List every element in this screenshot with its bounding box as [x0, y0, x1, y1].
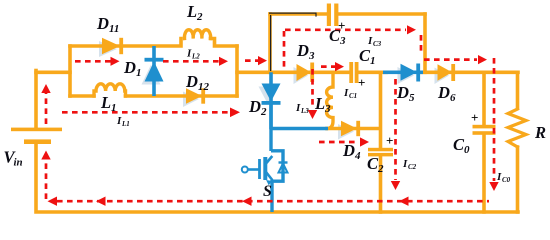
svg-text:4: 4	[354, 150, 361, 162]
diode D11	[102, 38, 120, 54]
gate circle	[242, 167, 248, 173]
svg-text:+: +	[338, 18, 345, 33]
arrowhead bottom return left mid2	[242, 197, 252, 206]
wire: loop bottom left segment	[70, 94, 94, 98]
wire: loop bottom right segment	[126, 94, 238, 98]
svg-text:S: S	[263, 183, 272, 200]
arrowhead post-D3	[335, 62, 344, 71]
svg-text:C0: C0	[502, 176, 511, 184]
wire: I loop row seg3	[245, 59, 259, 62]
wire: output rail D6 to R corner	[422, 71, 518, 75]
arrowhead I_C0 down	[489, 182, 498, 191]
wire: right red jog vertical	[420, 35, 423, 54]
arrowhead right end seg1	[111, 57, 120, 66]
wire: C0 riser top	[482, 72, 486, 125]
svg-text:2: 2	[196, 11, 203, 23]
shadow of diode D12	[183, 92, 199, 108]
svg-text:2: 2	[260, 106, 267, 118]
shadow of diode D3	[294, 67, 309, 84]
arrowhead D4 current arrow	[360, 137, 369, 146]
svg-text:C1: C1	[349, 92, 357, 100]
wire: C3 riser	[268, 14, 272, 72]
svg-text:6: 6	[450, 92, 456, 104]
shadow of diode D1	[142, 65, 161, 85]
wire: C2 riser bottom	[379, 156, 383, 212]
svg-text:+: +	[358, 75, 365, 90]
arrowhead bottom return left mid3	[399, 197, 409, 206]
wire: I_C2 vertical	[394, 79, 397, 180]
IGBT anti-parallel diode bar	[279, 161, 288, 163]
capacitor C2 plates	[368, 148, 393, 152]
wire: R top lead	[516, 72, 520, 108]
wire: battery bottom lead and bottom rail	[36, 144, 518, 213]
wire: I_C0 vertical	[493, 58, 496, 181]
svg-text:2: 2	[377, 163, 384, 175]
arrowhead battery upper up	[41, 84, 50, 93]
wire: I_C3 left vertical	[283, 31, 286, 70]
shadow of diode D6	[435, 68, 450, 85]
wire: C1 right to C2 node	[358, 71, 387, 75]
wire: loop top right of L2	[211, 39, 238, 47]
wire: collector down	[269, 101, 272, 151]
svg-text:D: D	[342, 141, 355, 160]
collector diagonal	[266, 156, 272, 164]
wire: C2 riser top	[379, 72, 383, 148]
svg-text:+: +	[386, 133, 393, 148]
wire: loop left edge	[68, 46, 72, 96]
svg-text:R: R	[534, 123, 546, 142]
shadow of diode D2	[259, 87, 278, 105]
inductor L1	[94, 84, 126, 96]
wire: D4 branch	[327, 127, 380, 131]
svg-text:1: 1	[136, 67, 142, 79]
capacitor C3 plates	[327, 4, 331, 27]
svg-text:11: 11	[109, 23, 119, 35]
red dashed current arrows	[46, 30, 494, 201]
emitter arrowhead	[266, 180, 272, 185]
gate bar	[258, 159, 261, 179]
arrowhead I_L3 down	[308, 110, 317, 119]
wire: I_L3 arrow	[311, 69, 314, 109]
svg-text:L3: L3	[300, 107, 309, 115]
inductor L3	[327, 72, 333, 128]
svg-text:in: in	[14, 157, 23, 169]
svg-text:0: 0	[464, 144, 470, 156]
svg-text:L: L	[314, 94, 325, 113]
svg-text:L: L	[186, 2, 197, 21]
wire: loop right edge	[235, 46, 239, 96]
svg-text:3: 3	[324, 103, 331, 115]
svg-text:+: +	[471, 110, 478, 125]
wire: bottom return	[57, 200, 489, 203]
emitter diagonal	[266, 172, 272, 180]
wire: right riser from top rail	[423, 14, 427, 72]
wire: D4 current arrow	[319, 141, 359, 144]
arrowhead bottom return left mid1	[96, 197, 106, 206]
battery Vin long plate	[11, 128, 62, 132]
shadow of diode D11	[99, 41, 117, 57]
svg-text:D: D	[96, 14, 109, 33]
svg-text:12: 12	[198, 81, 210, 93]
svg-text:L1: L1	[121, 120, 130, 128]
svg-text:D: D	[123, 58, 136, 77]
svg-text:C2: C2	[408, 163, 417, 171]
diode D3	[297, 64, 312, 81]
IGBT switch S with anti-parallel diode	[248, 101, 328, 212]
wire: post-D3 arrow	[321, 65, 335, 68]
svg-text:1: 1	[111, 102, 117, 114]
thin black wire artifact vertical at C3 riser	[270, 15, 272, 71]
wire: loop top with L2 risers	[70, 39, 181, 47]
inductor L2	[184, 30, 210, 39]
diode D6	[438, 64, 453, 80]
svg-text:5: 5	[409, 92, 415, 104]
diode D5 (blue, pointing right)	[383, 64, 423, 82]
wire: top rail right of C3	[339, 12, 426, 16]
battery Vin short plate	[24, 139, 51, 144]
wire: right red jog horizontal	[424, 58, 477, 61]
svg-text:D: D	[396, 83, 409, 102]
capacitor C1 plates	[349, 62, 353, 83]
svg-text:C3: C3	[373, 40, 382, 48]
wire: feed from battery to loop	[36, 71, 70, 75]
arrowhead battery lower up	[41, 151, 50, 160]
diode D2 (blue, pointing down)	[262, 72, 281, 129]
wire: R bottom lead	[516, 147, 520, 212]
wire: battery top lead	[34, 71, 38, 129]
wire: I loop row seg2	[163, 60, 220, 63]
wire: blue collector node to L3/D4 node	[271, 127, 328, 130]
wire: I_C3 top	[285, 28, 406, 31]
arrowhead I_C3 right	[407, 25, 416, 34]
resistor R	[508, 109, 526, 147]
svg-text:L2: L2	[191, 53, 200, 61]
svg-text:3: 3	[339, 35, 346, 47]
arrowhead right end seg2	[219, 57, 228, 66]
wire: I loop row seg1	[75, 60, 112, 63]
arrowhead I_L1	[230, 108, 240, 118]
svg-text:1: 1	[370, 55, 376, 67]
gate lead	[248, 168, 259, 171]
shadow of diode D4	[338, 124, 354, 140]
diode D4	[341, 121, 357, 136]
svg-text:L: L	[100, 93, 111, 112]
body bar	[263, 157, 267, 180]
svg-text:3: 3	[308, 50, 315, 62]
wire: mid rail loop to C1	[237, 71, 350, 75]
arrowhead right jog	[478, 55, 487, 64]
wire: top rail left of C3	[270, 12, 327, 16]
IGBT anti-parallel diode triangle	[279, 164, 288, 173]
shadow of diode D5	[398, 67, 415, 84]
wire: I_L1 row	[62, 111, 229, 114]
svg-text:D: D	[248, 97, 261, 116]
arrowhead bottom return left at corner	[48, 197, 58, 206]
diode D1 (blue, pointing up)	[145, 46, 164, 96]
wire: C0 riser bottom	[482, 135, 486, 212]
capacitor C0 plates	[473, 125, 496, 129]
svg-text:D: D	[437, 83, 450, 102]
svg-text:D: D	[185, 72, 198, 91]
thin black wire artifact along top rail	[269, 13, 316, 17]
arrowhead right end seg3	[258, 56, 267, 65]
svg-text:D: D	[296, 41, 309, 60]
diode D12	[186, 88, 202, 103]
arrowhead I_C2 down	[391, 181, 400, 190]
wire: battery branch arrow upper	[45, 93, 48, 124]
wire: battery branch arrow lower	[45, 159, 48, 199]
